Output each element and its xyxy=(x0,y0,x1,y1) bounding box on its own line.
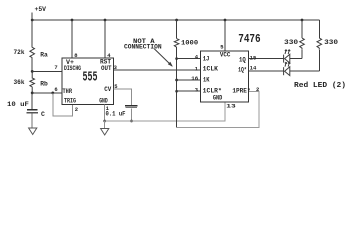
wire left 330 bottom lead xyxy=(301,50,303,59)
wire THR (pin 6) xyxy=(32,92,62,94)
ground symbol under C xyxy=(29,128,37,135)
resistor R330 left xyxy=(300,38,305,50)
capacitor C plates xyxy=(27,110,39,113)
wire 7476 1Q (pin 15) to LED1 xyxy=(249,58,284,60)
wire left 330 top lead xyxy=(301,20,303,38)
junction node pullup to 1K xyxy=(175,79,178,82)
junction dot rail at 555 pin 8 xyxy=(71,19,74,22)
junction node pullup to 1J xyxy=(175,57,178,60)
wire pullup vertical xyxy=(176,47,178,127)
wire rail to Ra top lead xyxy=(31,13,33,48)
svg-text:16: 16 xyxy=(191,75,198,82)
capacitor C top lead xyxy=(31,93,33,109)
svg-text:7476: 7476 xyxy=(238,32,261,46)
svg-text:330: 330 xyxy=(324,39,338,46)
svg-text:2: 2 xyxy=(75,106,78,113)
resistor R 1000 xyxy=(174,39,179,48)
wire 555 OUT (pin 3) to 7476 1CLK xyxy=(114,69,201,71)
svg-text:36k: 36k xyxy=(14,79,25,86)
ground symbol under 555 xyxy=(101,129,109,136)
wire TRIG link (pin 2) xyxy=(53,93,73,116)
note NOT A CONNECTION xyxy=(124,38,173,67)
node +5V label xyxy=(35,6,47,14)
wire 555 pin 4 drop xyxy=(104,20,106,58)
wire 0.1uF bottom lead xyxy=(131,108,133,121)
wire 555 CV (pin 5) to 0.1uF cap xyxy=(114,89,132,105)
svg-text:+5V: +5V xyxy=(35,6,47,14)
svg-text:1Q*: 1Q* xyxy=(238,67,247,74)
wire +5V rail xyxy=(32,19,319,21)
resistor Rb xyxy=(30,71,35,93)
svg-text:14: 14 xyxy=(250,65,257,72)
junction node TRIG tap xyxy=(51,92,54,95)
wire right 330 bottom lead xyxy=(318,50,320,71)
svg-text:15: 15 xyxy=(250,55,257,62)
svg-text:10 uF: 10 uF xyxy=(7,101,29,108)
wire ground rail to 7476 pin 13 xyxy=(105,102,225,121)
svg-text:330: 330 xyxy=(284,39,298,46)
svg-text:GND: GND xyxy=(99,97,108,104)
IC U1 555 timer xyxy=(62,58,114,105)
LED D1 xyxy=(284,50,291,63)
svg-text:1Q: 1Q xyxy=(239,57,246,64)
svg-text:1J: 1J xyxy=(203,56,210,63)
svg-text:Red LED (2): Red LED (2) xyxy=(294,82,346,90)
svg-text:GND: GND xyxy=(213,94,223,101)
svg-text:6: 6 xyxy=(54,86,57,93)
svg-text:DISCHG: DISCHG xyxy=(64,65,81,72)
svg-text:VCC: VCC xyxy=(220,52,231,59)
wire 555 pin 8 drop xyxy=(71,20,73,58)
junction dot 0.1uF on ground rail xyxy=(130,120,133,123)
svg-text:CONNECTION: CONNECTION xyxy=(124,43,162,50)
svg-text:TRIG: TRIG xyxy=(64,97,76,104)
IC U2 7476 JK flip-flop xyxy=(201,51,249,102)
wire C bottom lead xyxy=(31,113,33,128)
svg-text:C: C xyxy=(41,111,45,118)
svg-text:1000: 1000 xyxy=(181,40,198,47)
wire pullup to 1PRE* (pin 2) xyxy=(177,91,259,127)
wire LED1 to left 330 xyxy=(290,58,302,60)
wire 1000 resistor top lead xyxy=(176,20,178,39)
junction dot rail at 555 pin 4 xyxy=(104,19,107,22)
svg-text:Ra: Ra xyxy=(40,51,48,58)
junction dot rail left end xyxy=(31,19,34,22)
svg-text:555: 555 xyxy=(83,71,98,86)
svg-text:1CLK: 1CLK xyxy=(203,66,219,73)
svg-text:THR: THR xyxy=(63,88,73,95)
junction dot rail at 7476 VCC xyxy=(224,19,227,22)
wire 555 GND (pin 1) drop xyxy=(104,105,106,122)
capacitor 0.1uF plates xyxy=(125,106,138,108)
wire ground stub xyxy=(104,121,106,129)
svg-text:1K: 1K xyxy=(203,77,210,84)
svg-text:1PRE*: 1PRE* xyxy=(232,88,250,95)
svg-text:2: 2 xyxy=(256,86,259,93)
wire to 1J (pin 4) xyxy=(177,58,201,60)
wire DISCHG (pin 7) xyxy=(32,70,62,72)
wire LED2 to right 330 xyxy=(290,70,320,72)
svg-text:13: 13 xyxy=(226,103,236,110)
svg-text:CV: CV xyxy=(104,86,111,93)
wire rail corner to right 330 xyxy=(318,20,320,38)
junction node Ra/Rb/DISCHG xyxy=(31,70,34,73)
LED D2 xyxy=(284,62,291,75)
resistor R330 right xyxy=(317,38,322,50)
junction node 555 GND xyxy=(103,120,106,123)
junction dot rail at left 330 xyxy=(301,19,304,22)
resistor Ra xyxy=(30,47,35,57)
wire to 1K (pin 16) xyxy=(177,79,201,81)
svg-text:OUT: OUT xyxy=(101,65,112,72)
wire to 1CLR* (pin 3) xyxy=(177,90,201,92)
wire Ra bottom to DISCHG junction xyxy=(31,58,33,72)
junction dot rail at 1000 resistor xyxy=(175,19,178,22)
svg-text:7: 7 xyxy=(54,64,57,71)
svg-text:Rb: Rb xyxy=(40,81,48,88)
junction node Rb/THR/C xyxy=(31,92,34,95)
wire 7476 1Q* (pin 14) to LED2 xyxy=(249,70,284,72)
junction node pullup to 1CLR xyxy=(175,90,178,93)
wire 7476 VCC drop (pin 5) xyxy=(224,20,226,51)
svg-text:72k: 72k xyxy=(14,49,25,56)
